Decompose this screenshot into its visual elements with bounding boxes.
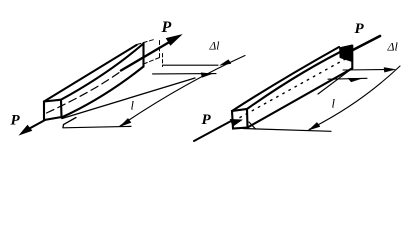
svg-text:P: P [11, 113, 21, 129]
left bar top-left edge [44, 45, 137, 102]
left bar ridge edge [61, 44, 144, 100]
l dimension diagonal left figure [120, 56, 245, 127]
arrowhead on line A crossing (left figure) [220, 60, 231, 66]
dimension line A (delta-l upper) left figure [163, 64, 219, 66]
dashed stretched-end extension of left bar [137, 40, 154, 45]
arrowhead on line B (right figure) [348, 78, 362, 82]
dimension line B right figure [328, 77, 367, 80]
svg-text:Δl: Δl [387, 40, 399, 54]
dashed drop extension line below left bar end [162, 54, 164, 67]
svg-text:l: l [332, 97, 336, 111]
arrowhead on diagonal at baseline (left figure) [120, 119, 131, 127]
right bar front face [232, 109, 248, 129]
extension line from right bar end bottom corner [318, 68, 352, 94]
arrowhead at right end of line A (right figure) [384, 68, 395, 73]
force line upper segment (left bar) [121, 41, 172, 71]
force line upper segment (right bar) [348, 36, 380, 53]
svg-text:Δl: Δl [209, 41, 220, 53]
arrowhead on line B crossing (left figure) [201, 73, 212, 77]
left bar end vertical edge [142, 43, 144, 67]
dashed axis line inside left bar [47, 69, 125, 113]
short extension stroke from right face bottom corner [249, 122, 256, 129]
svg-text:l: l [131, 99, 135, 113]
force arrowhead pointing into face (right bar) [231, 120, 242, 127]
force line lower segment (right bar) [194, 121, 232, 142]
svg-text:P: P [355, 21, 365, 37]
l dimension diagonal right figure [309, 66, 400, 130]
short extension stroke from left face bottom corner [63, 118, 76, 128]
right bar bottom-right edge [248, 68, 353, 127]
force arrowhead upper-right (left bar) [167, 35, 182, 45]
arrowhead at baseline end of diagonal (right figure) [309, 123, 320, 131]
baseline under left figure [63, 126, 131, 127]
right bar end vertical edge [351, 46, 353, 69]
force arrowhead lower-left (left bar) [20, 126, 32, 135]
right bar ridge edge [247, 46, 352, 109]
left bar bottom-right edge [62, 67, 144, 118]
dimension line B (l upper) left figure [153, 73, 217, 75]
right bar top-left edge [232, 47, 339, 111]
black end face / force arrowhead (right bar) [340, 45, 353, 62]
svg-text:P: P [202, 112, 212, 128]
dimension line A (delta-l) right figure [343, 69, 390, 72]
force line lower segment (left bar) [24, 120, 45, 132]
svg-text:P: P [161, 19, 172, 36]
dotted axis line inside right bar [240, 58, 348, 118]
baseline under right figure [243, 129, 331, 132]
left bar front face [44, 100, 62, 120]
extension line from left face bottom corner to dimension zone [62, 78, 195, 119]
